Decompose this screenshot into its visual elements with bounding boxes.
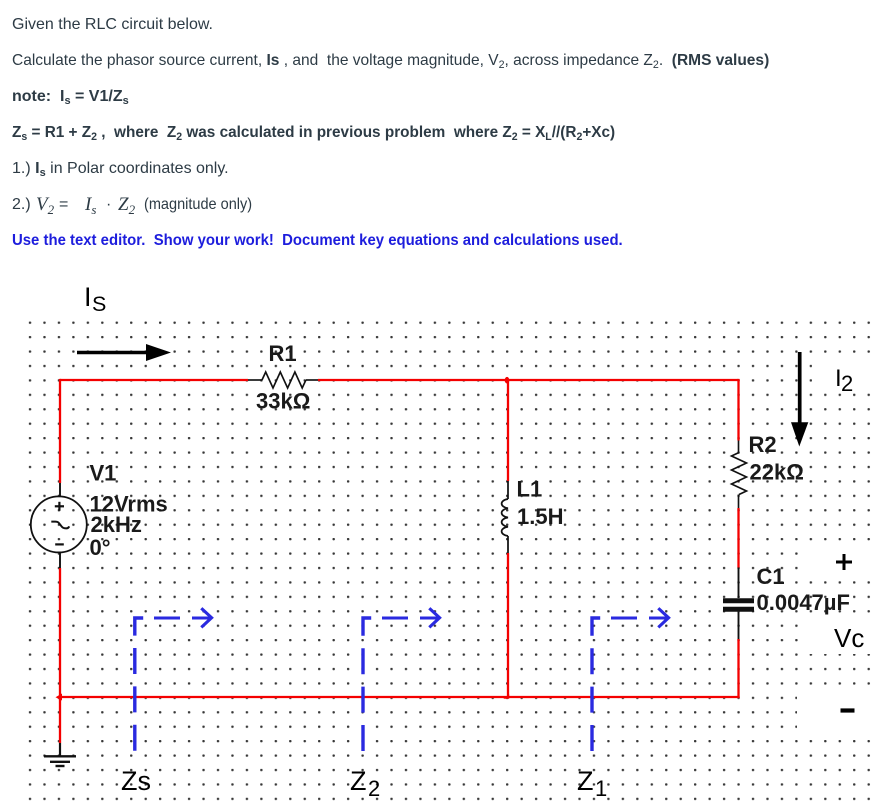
svg-text:1.5H: 1.5H (517, 504, 563, 529)
document text (12, 15, 213, 35)
wire R1-to-right corner (318, 379, 739, 381)
annotation background plus (801, 544, 876, 580)
svg-text:2: 2 (841, 371, 853, 396)
svg-text:33kΩ: 33kΩ (256, 389, 310, 414)
label Z2 (350, 766, 380, 801)
inductor L1 (502, 481, 508, 553)
wire left vertical upper (59, 379, 61, 483)
wire right vertical lower (737, 639, 739, 698)
svg-text:0.0047µF: 0.0047µF (757, 590, 850, 615)
svg-text:2: 2 (368, 776, 380, 801)
node Is label (84, 282, 106, 316)
current I2 arrow (791, 352, 808, 447)
Is current arrow (77, 344, 171, 361)
wire middle vertical lower (507, 553, 509, 697)
wire left vertical lower (59, 568, 61, 743)
svg-text:L1: L1 (517, 477, 543, 502)
svg-text:V1: V1 (90, 461, 117, 486)
voltage source V1 (31, 483, 87, 568)
wire right vertical mid (737, 508, 739, 568)
svg-text:R1: R1 (269, 341, 297, 366)
resistor R1 (248, 372, 318, 388)
label I2 (835, 365, 853, 396)
node junction arrow bottom-left (56, 694, 63, 701)
svg-text:1: 1 (595, 776, 607, 801)
svg-text:22kΩ: 22kΩ (750, 460, 804, 485)
svg-text:Z: Z (577, 766, 594, 796)
node junction top middle (505, 377, 510, 384)
svg-text:C1: C1 (757, 564, 785, 589)
svg-text:Z: Z (350, 766, 367, 796)
minus sign Vc (841, 708, 855, 712)
wire top left-to-R1 (60, 379, 248, 381)
node junction bottom middle (503, 694, 509, 699)
label Zs (121, 766, 151, 796)
impedance arrow Z2 (363, 608, 440, 753)
annotation background minus (797, 690, 876, 738)
wire right vertical upper (737, 379, 739, 441)
annotation background I2 (812, 355, 879, 394)
capacitor C1 (723, 568, 754, 640)
grid dots (28, 320, 879, 811)
label Z1 (577, 766, 607, 801)
ground (44, 743, 76, 766)
wire middle vertical upper (507, 380, 509, 481)
impedance arrow Zs (135, 608, 212, 753)
svg-text:I: I (84, 282, 92, 312)
resistor R2 (732, 441, 747, 509)
wire bottom (59, 696, 740, 698)
svg-text:2kHz: 2kHz (91, 512, 142, 537)
svg-text:Vc: Vc (834, 623, 864, 653)
plus sign Vc (836, 554, 852, 570)
impedance arrow Z1 (592, 608, 669, 753)
svg-text:Zs: Zs (121, 766, 151, 796)
annotation background Vc (801, 616, 876, 654)
svg-text:R2: R2 (749, 432, 777, 457)
svg-text:0°: 0° (90, 535, 111, 560)
svg-text:S: S (92, 292, 106, 316)
